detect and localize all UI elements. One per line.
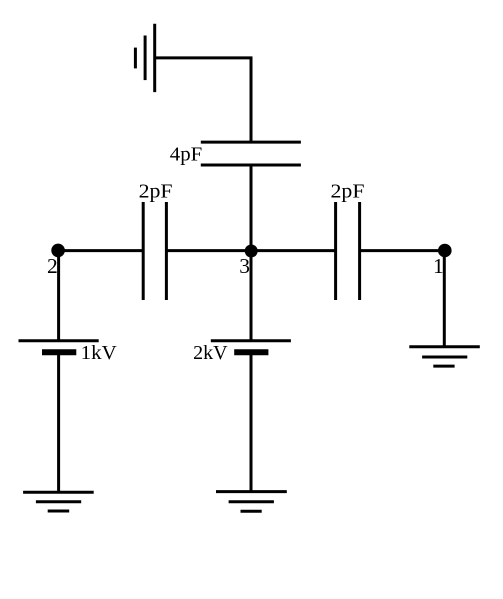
capacitor C4 4pF	[201, 142, 301, 165]
wire node 1 down to ground	[443, 251, 446, 347]
wire C3-right to node 1	[360, 249, 445, 252]
wire C2-right to node 3	[166, 249, 251, 252]
node 1	[438, 244, 452, 258]
wire node 3 to C3-left	[251, 249, 336, 252]
wire node 2 down to battery V1	[57, 250, 60, 340]
wire node 3 down to battery V2	[250, 251, 253, 341]
svg-text:3: 3	[239, 254, 250, 278]
svg-text:2: 2	[47, 254, 58, 278]
node 3	[245, 245, 258, 258]
wire top horizontal	[155, 56, 253, 59]
wire battery V2 to ground	[250, 352, 253, 491]
wire battery V1 to ground	[57, 352, 60, 492]
svg-text:1kV: 1kV	[81, 343, 117, 364]
svg-text:1: 1	[433, 254, 444, 278]
svg-text:2pF: 2pF	[331, 182, 365, 203]
ground G3 (center)	[216, 492, 287, 512]
battery V1 1kV	[19, 341, 99, 353]
battery V2 2kV	[211, 341, 291, 353]
svg-text:2pF: 2pF	[139, 182, 173, 203]
wire C4 to node 3	[250, 165, 253, 251]
capacitor C2 2pF (left)	[143, 202, 166, 300]
ground G1 (right)	[409, 347, 480, 366]
ground GT (rotated left, top)	[135, 24, 154, 92]
node 2	[51, 244, 65, 258]
svg-text:4pF: 4pF	[170, 144, 203, 165]
wire node2 to C2-left	[59, 249, 144, 252]
wire top vertical	[250, 57, 253, 143]
capacitor C3 2pF (right)	[336, 202, 360, 300]
svg-text:2kV: 2kV	[193, 343, 228, 364]
ground G2 (left)	[23, 492, 94, 511]
